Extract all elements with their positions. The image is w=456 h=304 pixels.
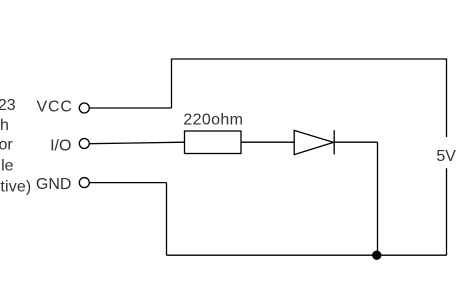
- svg-text:5V: 5V: [436, 148, 456, 165]
- svg-text:DS2423: DS2423: [0, 97, 16, 114]
- svg-text:I/O: I/O: [50, 137, 71, 154]
- svg-text:VCC: VCC: [37, 98, 73, 115]
- svg-text:sensor: sensor: [0, 137, 13, 154]
- wire bottom rail: [167, 254, 447, 256]
- svg-text:220ohm: 220ohm: [183, 112, 243, 129]
- wire I/O to resistor (slight slant): [89, 142, 184, 144]
- wire GND vertical drop: [166, 183, 168, 256]
- terminal I/O: [79, 139, 89, 149]
- wire diode to corner: [334, 141, 377, 143]
- junction node dot: [372, 251, 381, 260]
- svg-text:le: le: [1, 157, 14, 174]
- wire diode branch vertical down: [377, 142, 379, 255]
- wire VCC horizontal: [89, 107, 171, 109]
- wire right rail lower segment: [446, 168, 448, 255]
- wire VCC riser vertical: [171, 59, 173, 108]
- diode D1 cathode bar: [333, 130, 335, 154]
- svg-text:with: with: [0, 117, 9, 134]
- wire top rail: [171, 58, 447, 60]
- wire GND horizontal: [89, 182, 166, 184]
- terminal VCC: [79, 103, 89, 113]
- svg-text:(active): (active): [0, 179, 31, 196]
- wire right rail upper segment: [446, 58, 448, 137]
- wire resistor to diode: [241, 141, 294, 143]
- diode D1 anode triangle: [294, 130, 333, 154]
- svg-text:GND: GND: [36, 176, 72, 193]
- resistor R1 body: [185, 131, 242, 154]
- terminal GND: [79, 178, 89, 188]
